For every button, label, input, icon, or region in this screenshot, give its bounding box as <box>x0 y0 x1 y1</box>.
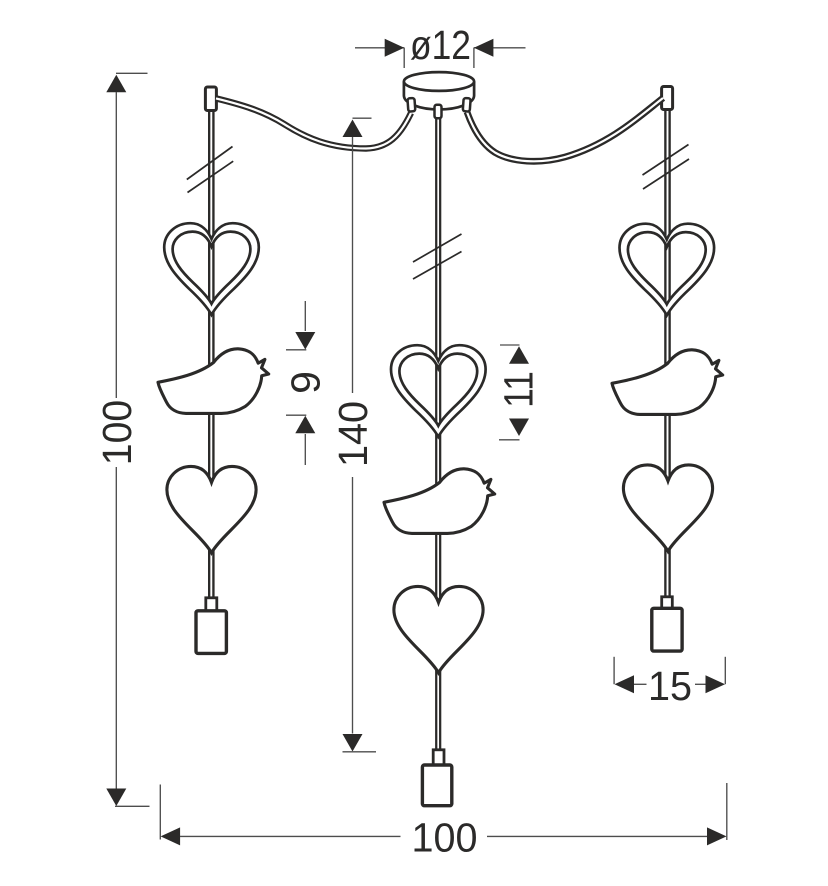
dim tick ø12 left <box>403 48 405 69</box>
dim tick ø12 right <box>473 48 475 69</box>
dim tick 100L bottom <box>115 805 150 807</box>
heart tube right <box>620 224 715 316</box>
dim stub 15 left <box>634 683 647 685</box>
dim tick 100L top <box>116 72 148 74</box>
socket neck left <box>206 598 217 612</box>
dim tick 140 bottom <box>343 751 377 753</box>
canopy grip center <box>435 105 442 118</box>
arrow ø12 left <box>385 39 405 57</box>
dim line 9 lower <box>304 434 306 465</box>
arrow 140 up <box>343 120 363 138</box>
svg-text:11: 11 <box>496 371 542 408</box>
dim line ø12 right <box>474 47 526 49</box>
arrow 100L down <box>106 789 126 807</box>
socket body left <box>196 611 226 654</box>
bird center <box>384 469 495 534</box>
socket body right <box>652 608 682 651</box>
arrow 100B right <box>707 827 727 845</box>
svg-text:100: 100 <box>94 400 140 466</box>
dim line 9 upper <box>304 301 306 331</box>
socket neck center <box>433 750 444 765</box>
ext line 15 right <box>724 657 726 684</box>
dim line 100B right <box>487 835 708 837</box>
svg-text:9: 9 <box>283 371 329 394</box>
socket body center <box>422 765 451 806</box>
dim tick 9 top <box>286 349 306 351</box>
wire swoop right <box>467 98 663 161</box>
arrow 11 up <box>509 346 529 364</box>
dim line ø12 left <box>355 47 404 49</box>
svg-text:ø12: ø12 <box>410 22 471 68</box>
arrow 9 up <box>295 416 315 434</box>
cable break left <box>187 147 233 193</box>
dim line 100B left <box>180 835 401 837</box>
dim tick 140 top <box>353 117 372 119</box>
dim tick 9 bottom <box>286 414 306 416</box>
bird left <box>158 349 269 414</box>
wire right drop <box>664 100 671 599</box>
arrow 15 right <box>706 675 726 693</box>
heart solid center <box>394 586 483 672</box>
cable break right <box>643 145 690 190</box>
heart tube left <box>164 223 259 315</box>
canopy grip right <box>463 98 471 112</box>
dim line 100L <box>115 92 117 789</box>
wire center drop <box>435 112 441 752</box>
dim tick 11 bottom <box>499 439 520 441</box>
ext line 100B left <box>159 785 161 840</box>
ext line 15 left <box>613 657 615 684</box>
svg-text:15: 15 <box>648 663 692 709</box>
dim line 140 <box>352 137 354 734</box>
arrow 100L up <box>106 75 126 93</box>
heart solid right <box>623 465 712 551</box>
svg-text:100: 100 <box>412 815 478 861</box>
cable break center <box>413 234 462 279</box>
dim tick 11 top <box>500 344 520 346</box>
cord grip left <box>205 87 216 111</box>
arrow ø12 right <box>474 39 494 57</box>
dim stub 15 right <box>695 683 706 685</box>
heart tube center <box>391 345 486 437</box>
ext line 100B right <box>726 783 728 840</box>
bird right <box>612 350 723 415</box>
wire swoop left <box>216 98 411 148</box>
svg-text:140: 140 <box>330 401 376 467</box>
socket neck right <box>662 597 673 609</box>
heart solid left <box>167 466 256 552</box>
arrow 9 down <box>295 332 315 350</box>
cord grip right <box>662 87 673 110</box>
canopy top rim <box>404 72 474 91</box>
arrow 140 down <box>343 734 363 752</box>
arrow 15 left <box>615 675 635 693</box>
arrow 100B left <box>161 827 181 845</box>
wire left drop <box>208 100 215 600</box>
canopy body <box>404 82 474 110</box>
arrow 11 down <box>509 419 529 437</box>
canopy grip left <box>407 98 415 112</box>
